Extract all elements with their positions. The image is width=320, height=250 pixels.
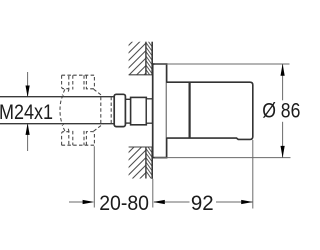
92 arrow left — [153, 200, 165, 204]
20-80 arrow right — [83, 200, 95, 204]
spindle collar — [114, 94, 125, 126]
92 dimension line left part — [154, 201, 190, 203]
bottom nut left ear — [62, 132, 69, 146]
Ø86 dimension line — [282, 64, 284, 100]
wall lower finish layer hatching — [146, 144, 152, 180]
92 dimension line right part — [216, 201, 252, 203]
wall lower rough surface line — [145, 147, 147, 179]
spacer ring at wall — [146, 99, 152, 123]
knob groove line — [189, 82, 191, 138]
top nut left ear — [62, 75, 69, 89]
bottom nut right ear — [86, 132, 94, 146]
dimension M24x1 leader lines — [27, 72, 29, 96]
M24x1 thread tube outline (solid) — [0, 96, 114, 98]
svg-text:M24x1: M24x1 — [0, 99, 53, 124]
92 arrow right — [241, 200, 253, 204]
20-80 dimension tail line — [69, 201, 90, 203]
valve body internal edge 2 — [110, 97, 112, 124]
spindle sleeve — [131, 97, 147, 124]
bottom nut middle facet edges — [72, 131, 74, 145]
M24x1 arrow down — [26, 86, 30, 98]
M24x1 arrow up — [26, 123, 30, 135]
Ø86 arrow up — [281, 64, 285, 76]
wall upper opening boundary — [129, 74, 153, 76]
wall lower opening boundary — [129, 146, 153, 148]
top nut chamfer diagonals — [62, 89, 65, 95]
top nut middle facet edges — [72, 75, 74, 89]
Ø86 arrow down — [281, 146, 285, 158]
handle knob outline — [167, 82, 253, 139]
bottom nut chamfer diagonals — [62, 125, 65, 131]
bottom dimension extension line at wall surface — [152, 179, 154, 208]
valve body left end cap arc — [60, 96, 64, 125]
valve body (dashed hidden) — [60, 75, 111, 145]
wall upper finished surface line — [151, 42, 153, 75]
valve body internal edge 1 — [100, 97, 102, 124]
wall upper rough surface line — [145, 42, 147, 75]
wall upper segment hatching (rough) — [126, 26, 148, 101]
wall lower segment hatching (rough) — [126, 133, 148, 200]
bottom dimension extension line at knob front — [252, 140, 254, 209]
bottom union nut bottom face — [62, 144, 95, 146]
bottom dimension extension line at valve rear — [93, 146, 95, 207]
top union nut top face — [62, 74, 95, 76]
escutcheon flange — [153, 64, 167, 158]
svg-text:92: 92 — [191, 190, 214, 215]
svg-text:Ø 86: Ø 86 — [262, 98, 300, 123]
svg-text:20-80: 20-80 — [99, 190, 149, 215]
top nut right ear — [86, 75, 94, 89]
dimension Ø86 extension lines — [155, 63, 290, 65]
wall lower finished surface line — [151, 147, 153, 179]
spindle short neck — [125, 98, 130, 100]
wall upper finish layer hatching — [146, 38, 152, 79]
